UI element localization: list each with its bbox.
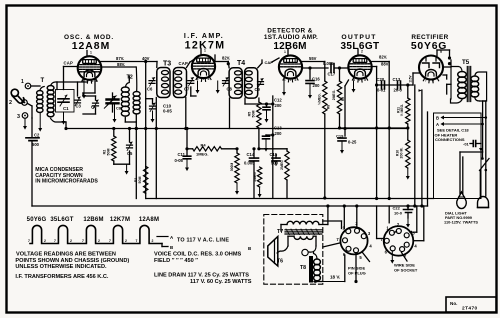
svg-text:C1: C1 [63,106,69,111]
svg-text:UNLESS OTHERWISE INDICATED.: UNLESS OTHERWISE INDICATED. [15,264,107,270]
svg-text:82V.: 82V. [222,56,230,61]
speaker cone T6 [268,237,278,267]
svg-text:OF PLUG: OF PLUG [348,271,366,276]
svg-text:1: 1 [204,49,206,53]
oscillator trimmer C4 [93,103,99,106]
svg-text:87V.: 87V. [116,56,124,61]
loop antenna winding [37,91,43,96]
svg-text:T: T [41,78,45,84]
svg-text:500: 500 [271,161,279,166]
switch [482,152,484,158]
title box No. 2T470 [446,297,496,312]
svg-text:1MEG.: 1MEG. [196,151,208,156]
transformer T3 secondary [173,68,186,98]
svg-text:0-05: 0-05 [175,158,184,163]
transformer T5 secondary [471,76,479,82]
wire box to plug top [323,220,342,222]
antenna terminal 2 [22,100,28,106]
svg-text:50Y6G: 50Y6G [27,217,47,223]
svg-text:7: 7 [82,239,84,243]
svg-text:2: 2 [70,239,72,243]
resistor R11 half MEG [406,98,410,124]
svg-text:C3: C3 [76,104,82,109]
svg-text:1: 1 [90,51,92,55]
wire to V5 [412,73,414,85]
wire T2 links [135,114,137,199]
wire osc [82,93,84,96]
svg-text:C2: C2 [34,133,40,138]
oscillator padder capacitor [107,100,119,104]
svg-text:35L6GT: 35L6GT [340,41,379,52]
svg-text:200: 200 [275,131,283,136]
svg-text:35L6GT: 35L6GT [50,217,73,223]
svg-text:0-01: 0-01 [377,88,386,93]
svg-text:50M: 50M [138,177,142,184]
svg-text:R4: R4 [201,142,207,147]
socket right wires from bus [416,206,418,232]
svg-text:12B6M: 12B6M [273,41,306,52]
capacitor C15 500 [272,158,280,161]
svg-text:0-25: 0-25 [348,140,357,145]
tube V1 12A8M [78,56,102,80]
svg-text:1MEG: 1MEG [253,172,257,182]
svg-text:R5: R5 [248,112,252,117]
heater detail box [434,113,482,199]
svg-text:2: 2 [125,239,127,243]
wire antenna sec bottom [65,122,67,129]
resistor R6 300M [235,153,239,183]
svg-text:LINE DRAIN 117 V. 25 Cy. 25 WA: LINE DRAIN 117 V. 25 Cy. 25 WATTS [154,273,249,279]
svg-text:7: 7 [359,78,361,82]
antenna coupling winding [47,86,54,91]
svg-text:OSC. & MOD.: OSC. & MOD. [64,34,114,41]
transformer T4 primary [229,68,242,98]
svg-text:2MEG: 2MEG [280,160,284,170]
svg-text:B: B [436,116,439,121]
svg-text:VOICE COIL D.C. RES. 3.0 OHMS: VOICE COIL D.C. RES. 3.0 OHMS [154,252,242,258]
svg-text:5: 5 [295,78,297,82]
svg-text:20-0: 20-0 [394,88,403,93]
svg-text:R11: R11 [397,107,401,113]
svg-text:C13: C13 [274,126,282,131]
tube V4 35L6GT [348,55,371,78]
resistor R9 2MEG [339,68,341,81]
svg-text:C6: C6 [147,87,153,92]
svg-text:C16: C16 [312,77,320,82]
resistor R5 50M [257,102,261,128]
wire V4 cathode [353,81,355,89]
tube V3 top stub [287,49,289,56]
svg-text:7: 7 [425,79,427,83]
svg-text:CAP: CAP [179,61,188,66]
svg-text:88V.: 88V. [117,62,125,67]
svg-text:2: 2 [44,239,46,243]
wire V1 pin down [83,80,85,95]
svg-text:C7: C7 [184,87,190,92]
svg-text:I.F. TRANSFORMERS ARE 456 K.C.: I.F. TRANSFORMERS ARE 456 K.C. [15,274,108,280]
svg-text:C12: C12 [274,98,282,103]
socket ground arrow [391,251,393,260]
plug bottom wire [355,253,357,282]
svg-text:7: 7 [290,78,292,82]
svg-text:12K7M: 12K7M [110,217,130,223]
svg-text:7: 7 [54,239,56,243]
capacitor C21 200 [398,81,401,89]
svg-text:115V: 115V [409,74,413,82]
transformer T2 primary [121,87,129,92]
svg-text:88V.: 88V. [381,62,389,67]
svg-text:12B6M: 12B6M [83,217,103,223]
tube V2 top stub [200,49,202,56]
transformer T7 core [285,230,322,234]
wire V2 plate 82V [214,55,216,62]
wire C1 top [56,82,58,90]
svg-text:TO 117 V A.C. LINE: TO 117 V A.C. LINE [177,238,229,244]
transformer T7 primary [287,221,319,224]
svg-text:T5: T5 [462,59,470,66]
svg-text:C19: C19 [336,134,344,139]
svg-text:RECTIFIER: RECTIFIER [411,34,448,41]
svg-text:C8: C8 [227,87,233,92]
speaker dashed box [264,215,323,285]
capacitor C14 0.005 [250,158,259,161]
svg-text:OF SOCKET: OF SOCKET [394,268,418,273]
svg-text:C11: C11 [178,152,186,157]
capacitor C20 0.01 [382,81,385,89]
resistor R4 1MEG [193,147,222,151]
tube V5 50Y6G [419,56,443,80]
svg-text:50M: 50M [107,149,111,156]
wire lower bus y206 [32,205,428,207]
wire V3 to C17 [302,67,328,69]
svg-text:CONNECTIONS: CONNECTIONS [435,137,465,142]
svg-text:2T470: 2T470 [462,306,478,312]
wire bottom bus y127 [66,128,408,130]
svg-text:R3: R3 [134,178,138,183]
capacitor C11 0.05 [186,129,188,156]
svg-text:2: 2 [9,100,12,106]
svg-text:C17: C17 [328,72,336,77]
svg-text:0-05: 0-05 [163,109,172,114]
capacitor C2 500 [31,118,33,138]
svg-text:300M: 300M [230,163,234,172]
svg-text:C20: C20 [377,77,385,82]
svg-text:FIELD ″ ″ ″: FIELD ″ ″ ″ 450 ″ [154,258,198,264]
svg-text:8: 8 [197,77,199,81]
svg-text:T4: T4 [237,60,245,67]
wire V3 plate 55V [302,61,325,63]
svg-text:·01: ·01 [463,142,470,147]
heater string [30,225,162,243]
transformer T5 core [467,67,470,102]
svg-text:117 V. 60 Cy. 25 WATTS: 117 V. 60 Cy. 25 WATTS [190,279,252,285]
capacitor C12 200 [263,107,270,110]
transformer T2 secondary [133,92,140,97]
socket pointer line [402,253,408,262]
transformer T7 secondary [294,236,313,239]
svg-text:IN MICROMICROFARADS: IN MICROMICROFARADS [35,179,98,185]
svg-text:B: B [170,245,173,250]
wire AVC 128 junctions [144,60,147,63]
resistor R7 2MEG [285,151,289,180]
wire V4 plate 82V 88V [372,61,390,63]
svg-text:T8: T8 [300,265,306,271]
svg-text:12A8M: 12A8M [139,217,159,223]
svg-text:1: 1 [284,50,286,54]
svg-text:8: 8 [432,79,434,83]
capacitor C10 0.05 [145,62,147,199]
svg-text:2: 2 [361,50,363,54]
plug PIN SIDE OF PLUG [340,227,367,254]
wire det line [272,96,274,198]
ground arrow below loop [39,113,41,128]
wire T5 right verticals [482,101,484,152]
antenna hook [11,89,18,96]
resistor R3 50M [144,166,148,193]
socket WIRE SIDE OF SOCKET [384,226,414,256]
resistor R2 50M [113,129,115,137]
svg-text:3: 3 [96,79,98,83]
svg-text:2MEG.: 2MEG. [332,90,336,101]
ground arrow volume [126,164,128,171]
svg-text:5: 5 [364,78,366,82]
transformer T3 primary [157,68,170,98]
antenna terminal 1 [25,83,31,89]
svg-text:55V: 55V [309,56,317,61]
capacitor C16 200 [309,68,311,79]
svg-text:B: B [248,246,251,251]
svg-text:2: 2 [152,239,154,243]
svg-text:3: 3 [17,114,20,120]
transformer T4 secondary [245,68,258,98]
svg-text:500: 500 [32,142,40,147]
plug wires up [343,206,345,229]
svg-text:C8: C8 [116,107,121,111]
svg-text:1ST.AUDIO AMP.: 1ST.AUDIO AMP. [264,34,318,41]
svg-text:7: 7 [28,239,30,243]
svg-text:C13: C13 [393,77,401,82]
tube V5 top stub [436,50,438,56]
trimmer C9 [258,82,264,85]
trimmer C8 [223,81,229,84]
svg-text:½MEG.: ½MEG. [318,93,322,105]
svg-text:18 V.: 18 V. [330,275,340,280]
trimmer C3 [75,100,81,103]
svg-text:200: 200 [313,83,321,88]
svg-text:7: 7 [109,239,111,243]
wire screen line y85 [377,84,413,86]
svg-text:10-0: 10-0 [394,211,403,216]
resistor R8 half MEG [324,62,326,82]
voice coil wires [277,246,288,253]
wire T3 cap to V2 grid [190,58,196,62]
svg-text:VOLTAGE READINGS ARE BETWEEN: VOLTAGE READINGS ARE BETWEEN [16,252,116,258]
transformer T5 primary [458,72,467,78]
svg-text:1: 1 [21,79,24,85]
ground arrow below terminal 3 [24,119,26,127]
wire box to plug [323,243,340,247]
svg-text:CAP: CAP [64,61,73,66]
wire V3 cathode [283,81,285,92]
svg-text:7: 7 [136,239,138,243]
svg-text:R8: R8 [327,105,331,109]
svg-text:110-125V. 7WATTS: 110-125V. 7WATTS [444,220,478,225]
svg-text:R10: R10 [396,150,400,156]
tuning capacitor C1 box [56,90,75,113]
variable capacitor C1 [58,99,69,102]
svg-text:No.: No. [450,301,457,306]
svg-text:200 M.: 200 M. [400,148,404,159]
svg-text:5: 5 [92,79,94,83]
svg-text:200: 200 [275,103,283,108]
power plug [479,171,481,197]
antenna terminal 3 [22,113,28,119]
resistor R10 200M [406,140,410,168]
tube V3 12B6M [279,55,302,78]
plug pointer line [363,253,370,262]
dial light stem [459,152,461,194]
wire V5 plate top [437,49,450,51]
capacitor C17 0.005 [331,64,334,73]
svg-text:7: 7 [203,77,205,81]
wire V1 screen 88V [101,66,136,68]
svg-text:A: A [436,122,439,127]
wire 128 bus [340,127,408,129]
resistor R12 1MEG [257,167,261,187]
trimmer C6 [149,81,155,84]
svg-text:T7: T7 [277,229,283,235]
svg-text:T6: T6 [277,259,283,265]
svg-text:5: 5 [208,77,210,81]
svg-text:C9: C9 [255,87,261,92]
svg-text:2: 2 [98,239,100,243]
svg-text:R2: R2 [103,150,107,155]
trimmer C5 [127,145,133,148]
tube V2 12K7M [192,55,215,78]
wire upper bus y198 [146,198,434,200]
svg-text:½ MEG.: ½ MEG. [400,104,404,116]
wire T4 cap to V3 grid [272,58,279,62]
wire V5 to T5 [443,66,451,68]
wire V1 plate bus 87V [101,61,157,63]
wire bus drops to socket [388,206,390,223]
wire V2 cathode down [197,81,199,90]
dial light bulb [457,192,467,209]
svg-text:T3: T3 [163,61,171,68]
ground arrow below C1 [63,112,65,121]
trimmer C7 [188,81,194,84]
wire bus drops [427,112,429,206]
capacitor C13 200 [263,136,270,139]
svg-text:82V.: 82V. [379,55,387,60]
capacitor C19 0.25 [338,138,346,141]
heater string terminals A B [161,244,163,247]
svg-text:50M: 50M [252,111,256,118]
tube V4 top stub [357,49,359,55]
tube V1 top stub [86,51,88,57]
svg-text:OUTPUT: OUTPUT [341,34,376,41]
